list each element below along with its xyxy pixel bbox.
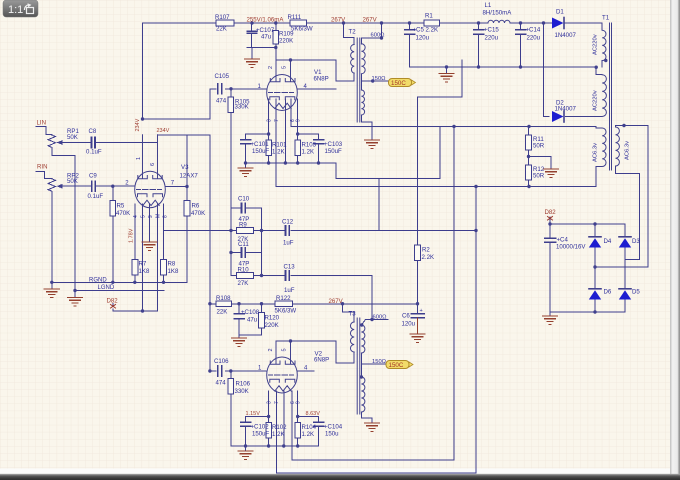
wire R101 stems	[268, 134, 270, 163]
wire R6 stems	[186, 135, 188, 282]
capacitor C13	[286, 271, 290, 280]
svg-text:600Ω: 600Ω	[373, 315, 388, 321]
wire R2 top jog	[418, 60, 463, 97]
wire plate-A zigzag	[143, 89, 210, 119]
transformer T1 secondary winding AC6.3v right	[616, 127, 620, 166]
resistor R12	[526, 165, 532, 180]
svg-text:+C101: +C101	[251, 141, 270, 148]
wire LGND rail y=290.5	[75, 291, 164, 298]
diode D1 1N4007	[549, 18, 568, 29]
wire C106 input line y=371	[210, 370, 266, 372]
resistor R108	[216, 301, 232, 307]
svg-text:C10: C10	[238, 196, 250, 203]
resistor R109	[273, 30, 279, 44]
wire RGND rail y=282.3	[52, 282, 187, 289]
svg-text:AC6.3v: AC6.3v	[593, 143, 599, 162]
wire T2 600ohm tap riser	[361, 23, 381, 44]
svg-text:150uF: 150uF	[252, 431, 270, 438]
diode D3	[619, 237, 631, 248]
svg-text:1.2K: 1.2K	[272, 431, 285, 438]
wire RP2 bottom run	[51, 191, 53, 282]
svg-text:5: 5	[282, 348, 288, 351]
electrolytic C4	[545, 238, 556, 242]
svg-text:150u: 150u	[325, 431, 339, 438]
resistor R6	[184, 201, 190, 217]
wire R10/C13 row y=275.5	[231, 275, 372, 277]
svg-text:T1: T1	[602, 15, 610, 22]
svg-text:267V: 267V	[329, 298, 344, 305]
svg-text:R122: R122	[276, 295, 291, 302]
resistor R111	[290, 20, 307, 26]
capacitor C106	[218, 366, 222, 376]
svg-text:150C: 150C	[389, 362, 404, 369]
svg-text:9: 9	[296, 119, 302, 122]
svg-text:2: 2	[268, 66, 274, 69]
svg-text:474: 474	[216, 98, 227, 105]
wire T3 600ohm tap	[361, 320, 388, 326]
electrolytic C101	[241, 140, 251, 144]
inductor L1	[488, 20, 510, 23]
transformer T2 secondary upper winding	[361, 44, 365, 74]
svg-text:C106: C106	[214, 358, 229, 365]
wire T3 primary top jog	[343, 304, 355, 312]
yellow probe flag 150C at T2	[389, 79, 416, 88]
svg-text:6: 6	[150, 163, 156, 166]
right frame edge	[670, 0, 680, 480]
svg-text:220u: 220u	[485, 35, 499, 42]
transformer T1 core	[610, 23, 612, 170]
svg-text:267V: 267V	[331, 17, 346, 24]
wire C108 stems	[238, 304, 240, 335]
svg-text:7: 7	[274, 119, 280, 122]
ground under C6	[417, 318, 419, 334]
wire heater rail y=186.5	[276, 167, 602, 187]
ground heater mid	[544, 169, 559, 177]
capacitor C9	[92, 181, 95, 191]
wire V3 plate-B tee y=134.8	[158, 134, 210, 136]
resistor R1	[424, 20, 440, 26]
svg-text:RGND: RGND	[89, 278, 107, 284]
svg-text:+C103: +C103	[324, 141, 343, 148]
svg-text:D6: D6	[604, 289, 612, 296]
transformer T1 secondary winding AC6.3v left	[602, 128, 606, 166]
wire R11/R12 midpoint to ground	[529, 157, 552, 170]
wire T2 primary bottom jog	[336, 60, 354, 81]
wire V1 bottom pins	[269, 99, 298, 187]
wire V3 pin7 to R6	[166, 186, 188, 188]
ground RGND	[44, 289, 59, 297]
ground under T2	[365, 140, 380, 148]
wire C5 stem	[409, 23, 411, 67]
wire C4 stems	[549, 224, 551, 312]
wire C107/R109 bottom y=49.5	[247, 48, 276, 60]
svg-text:R111: R111	[288, 14, 302, 21]
wire C104 stems	[318, 417, 320, 447]
svg-text:6N8P: 6N8P	[314, 76, 329, 83]
transformer T3 secondary upper winding	[361, 325, 365, 353]
svg-text:150uF: 150uF	[325, 148, 343, 155]
resistor R101	[266, 140, 272, 156]
svg-text:AC6.3v: AC6.3v	[625, 141, 631, 160]
svg-text:8H/150mA: 8H/150mA	[483, 10, 513, 17]
resistor R102	[266, 423, 272, 439]
svg-text:2: 2	[268, 348, 274, 351]
svg-text:330K: 330K	[235, 104, 249, 111]
wire D2 branch x=543.5	[544, 23, 603, 117]
svg-text:27K: 27K	[238, 280, 249, 287]
svg-text:+C4: +C4	[557, 237, 569, 244]
svg-text:12AX7: 12AX7	[180, 173, 199, 180]
svg-text:1K8: 1K8	[168, 268, 179, 275]
svg-text:1.15V: 1.15V	[246, 411, 261, 417]
electrolytic C107	[247, 31, 257, 33]
svg-text:+C102: +C102	[251, 424, 270, 431]
wire V1 plates y=59.5	[276, 59, 336, 61]
svg-text:1K8: 1K8	[139, 268, 150, 275]
no-ERC mark D82 right	[548, 217, 553, 221]
svg-text:47u: 47u	[247, 317, 257, 324]
svg-text:+C108: +C108	[241, 309, 260, 316]
bottom scrollbar-like dark bar	[0, 474, 680, 480]
zoom indicator box 1:1	[3, 0, 38, 17]
tube V1 internals	[269, 60, 296, 109]
ground LGND	[68, 298, 83, 306]
svg-text:150C: 150C	[391, 80, 406, 87]
wire heater AC drop x=648	[647, 126, 649, 268]
svg-text:AC220v: AC220v	[593, 34, 599, 55]
svg-text:R106: R106	[236, 381, 251, 388]
resistor R105	[228, 97, 234, 113]
svg-text:1uF: 1uF	[283, 240, 294, 247]
svg-text:R8: R8	[168, 261, 176, 268]
wire x=379 jog	[378, 179, 380, 231]
svg-text:470K: 470K	[116, 210, 130, 217]
tube V2 6N8P envelope	[267, 357, 298, 393]
svg-text:2.2K: 2.2K	[422, 254, 435, 261]
electrolytic C14	[516, 30, 526, 34]
svg-text:220K: 220K	[265, 322, 279, 329]
svg-text:220K: 220K	[279, 38, 293, 45]
svg-text:50K: 50K	[67, 178, 78, 185]
svg-text:50R: 50R	[533, 173, 545, 180]
no-ERC mark D82 left	[111, 305, 116, 309]
transformer T2 primary winding	[351, 45, 355, 74]
svg-text:R104: R104	[302, 424, 317, 431]
svg-text:R108: R108	[216, 295, 231, 302]
wire R109 stem	[275, 23, 277, 60]
svg-text:D82: D82	[545, 209, 557, 216]
resistor R106	[228, 379, 234, 395]
capacitor C10	[242, 204, 246, 213]
wire R2 branch	[417, 97, 419, 304]
svg-text:AC220v: AC220v	[593, 90, 599, 111]
wire V2 bias rail right y=416.5	[298, 416, 319, 418]
transformer T1 primary lower winding AC220v	[602, 75, 606, 117]
wire ground stub at 446.5	[446, 67, 448, 74]
svg-text:3: 3	[267, 401, 273, 404]
wire bridge left column	[594, 224, 596, 312]
svg-text:LIN: LIN	[37, 120, 46, 127]
svg-text:+C104: +C104	[324, 424, 343, 431]
svg-text:8: 8	[163, 215, 169, 218]
wire V2 bottom pins	[269, 391, 298, 446]
wire main B+ rail y=23	[143, 23, 603, 30]
wire C107 stem	[251, 23, 253, 48]
svg-text:50K: 50K	[67, 134, 78, 141]
wire 267V stage rail y=303.75	[210, 303, 418, 305]
wire T3 winding stubs	[354, 312, 386, 423]
transformer T3 core	[357, 318, 360, 414]
resistor R7	[132, 260, 138, 276]
diode D2 1N4007	[552, 111, 564, 122]
wire RIN entry	[36, 172, 52, 179]
wire R11 chain	[528, 127, 530, 187]
wire long loop x=454	[292, 127, 454, 461]
ground under C101	[238, 168, 253, 176]
resistor R5	[110, 201, 116, 217]
electrolytic C15	[474, 30, 484, 34]
svg-text:150Ω: 150Ω	[372, 76, 387, 82]
wire RP1 bottom to ground run	[52, 148, 75, 291]
diode D5	[619, 289, 631, 300]
wire R106 stems	[230, 371, 232, 446]
wire T1 sec2 bottom jog	[616, 166, 640, 260]
svg-text:R6: R6	[192, 203, 200, 210]
potentiometer RP2	[48, 179, 66, 191]
svg-text:R10: R10	[238, 267, 250, 274]
wire plate-B feed drop x=209.9	[209, 135, 211, 371]
svg-text:R2: R2	[422, 247, 430, 254]
transformer T2 secondary lower winding	[361, 90, 364, 115]
resistor R107	[216, 20, 234, 26]
wire C13 to T3 tap x=372	[371, 276, 373, 320]
svg-text:R5: R5	[117, 203, 125, 210]
resistor R103	[295, 140, 301, 156]
wire bridge right column	[624, 224, 626, 312]
resistor R104	[295, 423, 301, 439]
svg-text:150Ω: 150Ω	[372, 359, 387, 365]
svg-text:D3: D3	[632, 238, 640, 245]
svg-text:8.63V: 8.63V	[306, 411, 321, 417]
svg-text:D4: D4	[604, 238, 612, 245]
ground under C108	[232, 338, 247, 346]
svg-text:1:1: 1:1	[8, 4, 23, 16]
wire V1 bias rail right y=134	[298, 133, 319, 135]
bottom white strip	[0, 469, 672, 474]
wire C14 stem	[520, 23, 522, 67]
resistor R2	[415, 245, 421, 261]
svg-text:0.1uF: 0.1uF	[86, 149, 102, 156]
svg-text:120u: 120u	[416, 35, 430, 42]
svg-text:+C5 2.2K: +C5 2.2K	[413, 27, 439, 34]
svg-text:4: 4	[133, 215, 139, 218]
svg-text:9: 9	[148, 215, 154, 218]
svg-text:234V: 234V	[157, 128, 170, 134]
svg-text:+C14: +C14	[526, 27, 541, 34]
wire R120 stems	[261, 304, 263, 335]
svg-text:C8: C8	[89, 128, 97, 135]
wire V2 pin9 drop	[291, 391, 293, 460]
svg-text:R103: R103	[302, 142, 317, 149]
ground V3 cathode	[142, 242, 157, 250]
svg-text:R9: R9	[239, 222, 247, 229]
ground bridge negative	[543, 316, 558, 324]
wire R5 stems	[112, 186, 114, 282]
svg-text:T2: T2	[349, 29, 357, 36]
electrolytic C104	[314, 422, 324, 426]
wire grid coupling y=230.5	[164, 230, 477, 232]
wire V3 pin lines down	[135, 204, 164, 311]
wire V2 bias bottom rail y=446	[231, 446, 319, 451]
svg-text:D5: D5	[632, 289, 640, 296]
svg-text:1N4007: 1N4007	[555, 105, 577, 112]
wire C103 stems	[318, 134, 320, 163]
svg-text:1.78V: 1.78V	[129, 228, 135, 243]
resistor R10	[237, 273, 254, 279]
diode D6	[589, 289, 601, 300]
wire V1 grid line y=88.8	[210, 88, 267, 90]
svg-text:120u: 120u	[402, 321, 416, 328]
wire C108/R120 bottom y=335	[239, 335, 262, 338]
wire bridge mid rail y=267	[595, 266, 648, 268]
svg-text:C13: C13	[284, 264, 296, 271]
ground HV filter	[439, 74, 454, 82]
wire RP1 wiper line / C8 line y=142.5	[58, 142, 158, 144]
wire C102 stems	[245, 417, 247, 447]
ground under T3	[365, 423, 380, 431]
wire V3 plate riser x=142.5	[142, 23, 144, 119]
wire bridge bottom rail y=312	[550, 312, 625, 316]
svg-text:R1: R1	[425, 13, 433, 20]
wire C10 row y=208	[231, 207, 262, 209]
wire C101 stems	[245, 134, 247, 163]
svg-text:150uF: 150uF	[252, 148, 270, 155]
svg-text:1.2K: 1.2K	[272, 149, 285, 156]
svg-text:1N4007: 1N4007	[555, 32, 577, 39]
svg-text:L1: L1	[485, 2, 492, 9]
svg-text:C12: C12	[282, 219, 294, 226]
transformer T1 primary upper winding AC220v	[602, 30, 606, 60]
svg-text:C105: C105	[215, 73, 230, 80]
capacitor C8	[92, 138, 96, 148]
svg-text:LGND: LGND	[98, 285, 115, 291]
transformer T3 primary winding	[350, 322, 354, 352]
electrolytic C108	[234, 314, 244, 319]
wire LIN entry	[36, 127, 52, 135]
wire HV ground rail y=67	[410, 61, 603, 75]
svg-text:1uF: 1uF	[284, 287, 295, 294]
tube V1 6N8P envelope	[267, 75, 298, 111]
wire R102 stems	[268, 417, 270, 447]
tube V3 12AX7 envelope	[135, 171, 166, 207]
svg-text:7: 7	[274, 401, 280, 404]
svg-text:6N8P: 6N8P	[314, 357, 329, 364]
svg-text:330K: 330K	[235, 388, 249, 395]
svg-text:5K6/3W: 5K6/3W	[291, 26, 313, 33]
resistor R9	[237, 228, 254, 234]
svg-text:22K: 22K	[217, 309, 228, 316]
svg-text:600Ω: 600Ω	[371, 33, 386, 39]
capacitor C12	[286, 226, 290, 235]
svg-text:267V: 267V	[363, 17, 378, 24]
svg-text:RIN: RIN	[37, 164, 48, 171]
wire C6 stems	[417, 304, 419, 314]
svg-text:C11: C11	[238, 241, 249, 248]
svg-text:C6: C6	[402, 313, 410, 320]
svg-text:R101: R101	[272, 142, 287, 149]
svg-text:D82: D82	[107, 298, 119, 305]
wire C15 stem	[478, 23, 480, 67]
svg-text:1.2K: 1.2K	[302, 431, 315, 438]
wire V1 bias bottom rail y=163	[246, 163, 337, 168]
wire V1 bias rail left y=134	[246, 133, 269, 135]
svg-text:3: 3	[267, 119, 273, 122]
wire long heater drop x=476	[277, 187, 477, 473]
electrolytic C6	[411, 314, 424, 318]
ground under V2 bias	[238, 451, 253, 459]
resistor R120	[259, 313, 265, 329]
svg-text:1: 1	[136, 157, 142, 160]
ground under C107	[245, 59, 260, 67]
svg-text:R107: R107	[215, 14, 230, 21]
wire heater rail y=126.5	[291, 127, 602, 129]
svg-text:C9: C9	[89, 173, 97, 180]
svg-text:255V/1.06mA: 255V/1.06mA	[247, 17, 285, 24]
wire V2 plates y=341	[276, 340, 336, 342]
wire T2 primary top jog	[344, 23, 355, 38]
svg-text:M: M	[156, 214, 162, 218]
svg-text:5: 5	[141, 215, 147, 218]
svg-text:5: 5	[282, 66, 288, 69]
svg-text:5K6/3W: 5K6/3W	[275, 308, 297, 315]
resistor R11	[526, 135, 532, 150]
wire DS2 top rail y=224	[550, 217, 625, 224]
svg-text:0.1uF: 0.1uF	[88, 193, 104, 200]
wire R104 stems	[297, 417, 299, 447]
transformer T3 secondary lower winding	[361, 377, 365, 412]
svg-text:T3: T3	[349, 311, 357, 318]
svg-text:R7: R7	[139, 261, 147, 268]
wire V1 pin4 to T2	[298, 88, 337, 90]
electrolytic C5	[405, 30, 415, 34]
svg-text:22K: 22K	[216, 26, 227, 33]
yellow probe flag 150C at T3	[386, 361, 413, 370]
wire C11 row y=252.5	[231, 252, 262, 254]
wire C10 box verticals	[231, 208, 262, 276]
potentiometer RP1	[48, 135, 66, 147]
wire T3 primary bottom jog	[336, 341, 354, 363]
svg-text:1.2K: 1.2K	[302, 149, 315, 156]
wire V2 pin drop x=276.5	[276, 391, 278, 473]
wire V2 bias rail left y=416.5	[246, 416, 269, 418]
tube V2 internals	[269, 341, 296, 391]
junction dots	[250, 21, 253, 24]
svg-text:V3: V3	[181, 164, 189, 171]
wire D82 net y=311	[113, 304, 158, 312]
svg-text:9: 9	[296, 401, 302, 404]
wire V2 grid line right	[298, 370, 315, 372]
svg-text:47u: 47u	[261, 34, 271, 41]
resistor R8	[161, 260, 167, 276]
svg-text:R102: R102	[272, 424, 287, 431]
svg-text:+C15: +C15	[484, 27, 499, 34]
wire R105 stems	[230, 89, 232, 208]
capacitor C11	[242, 248, 246, 257]
electrolytic C103	[314, 140, 324, 144]
wire bias-to-heater jog x=336	[336, 127, 440, 179]
svg-text:R120: R120	[265, 315, 280, 322]
wire T2 winding stubs	[354, 38, 388, 141]
